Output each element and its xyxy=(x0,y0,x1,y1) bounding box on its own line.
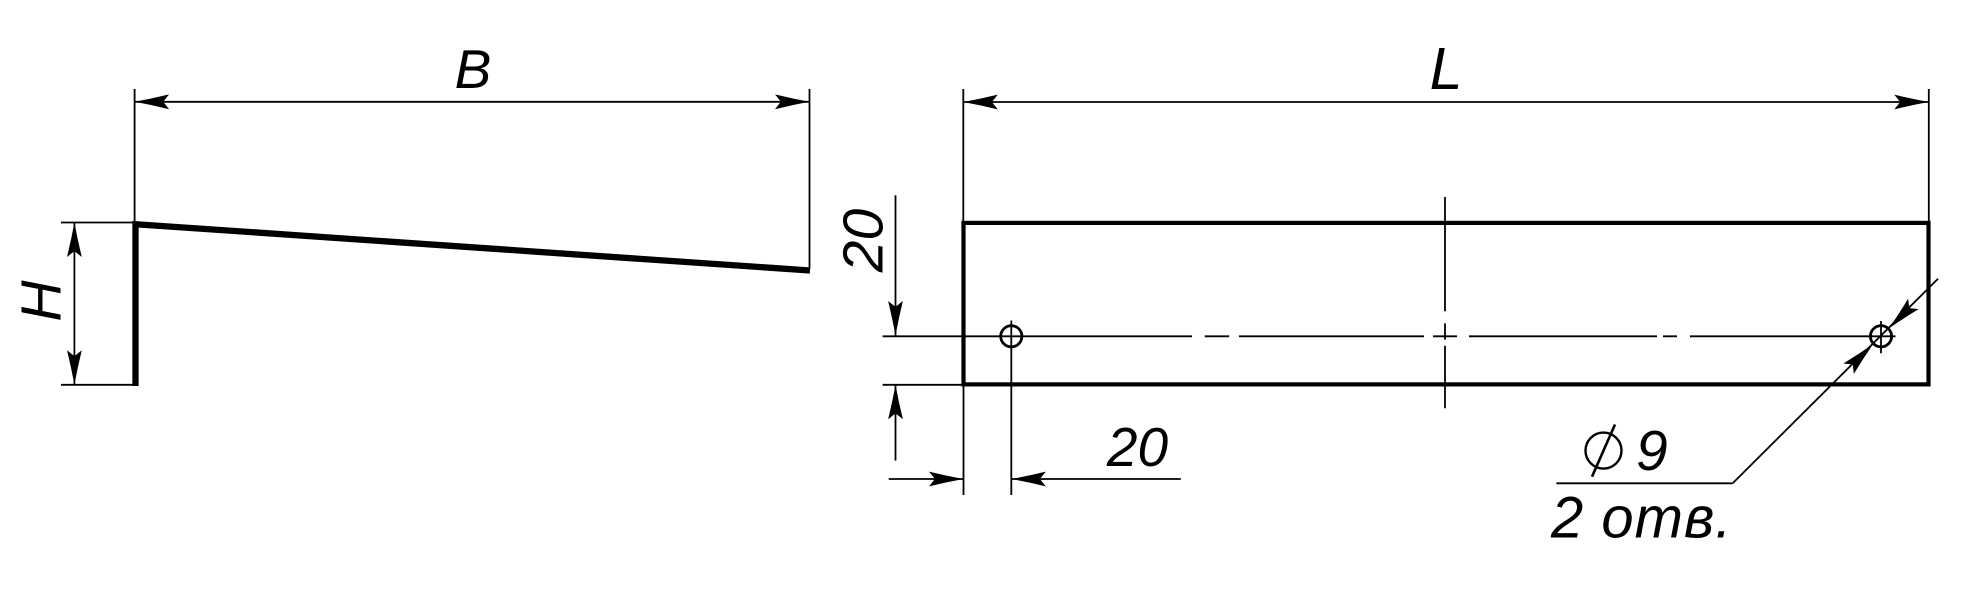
arrow H top xyxy=(67,223,82,258)
dimension line B xyxy=(135,101,810,103)
vertical centerline of plate xyxy=(1444,197,1446,408)
dimension line H xyxy=(73,223,75,385)
dimension line 20 horizontal left segment xyxy=(889,478,964,480)
extension line bottom of dimension H xyxy=(61,384,133,386)
extension line bottom edge to left xyxy=(883,384,964,386)
dimension line L xyxy=(963,101,1929,103)
hole 2 vertical center mark xyxy=(1880,321,1882,353)
arrow 20 horizontal pointing left xyxy=(1011,472,1046,487)
angle profile outline (thick section) xyxy=(136,224,811,386)
arrow L right xyxy=(1894,95,1929,110)
leader diagonal line to hole 2 xyxy=(1733,279,1938,484)
horizontal centerline through holes xyxy=(883,335,1896,337)
hole 1 center mark / extension line down to 20 dimension xyxy=(1010,321,1012,496)
leader shelf line of hole callout xyxy=(1556,482,1732,484)
extension line below plate left edge xyxy=(963,385,965,495)
plate outline rectangle xyxy=(964,223,1929,385)
leader arrow upper-right of hole xyxy=(1884,299,1919,334)
hole 1 (left) xyxy=(1001,326,1022,347)
diameter symbol slash xyxy=(1592,425,1615,477)
hole 2 (right) xyxy=(1870,326,1891,347)
extension line top of dimension H xyxy=(61,222,135,224)
svg-text:L: L xyxy=(1430,36,1463,102)
extension line left of dimension B xyxy=(134,89,136,224)
arrow B right xyxy=(775,94,810,109)
svg-text:2 отв.: 2 отв. xyxy=(1550,486,1732,551)
extension line right of dimension L xyxy=(1928,89,1930,221)
svg-text:20: 20 xyxy=(1106,416,1169,478)
extension line right of dimension B xyxy=(809,89,811,269)
svg-text:20: 20 xyxy=(832,209,896,274)
dimension line 20 horizontal right segment xyxy=(1011,478,1181,480)
svg-text:9: 9 xyxy=(1636,419,1668,483)
arrow 20 vertical pointing down xyxy=(888,301,903,336)
svg-text:B: B xyxy=(455,38,492,100)
arrow B left xyxy=(135,94,170,109)
svg-text:H: H xyxy=(10,280,74,322)
arrow 20 horizontal pointing right xyxy=(929,472,964,487)
arrow 20 vertical pointing up xyxy=(888,385,903,420)
arrow L left xyxy=(963,95,998,110)
dimension line 20 vertical upper segment xyxy=(895,195,897,335)
arrow H bottom xyxy=(67,350,82,385)
extension line left of dimension L xyxy=(962,89,964,221)
leader arrow lower-left of hole xyxy=(1843,339,1878,374)
diameter symbol circle xyxy=(1586,433,1622,469)
dimension line 20 vertical lower segment xyxy=(895,385,897,461)
